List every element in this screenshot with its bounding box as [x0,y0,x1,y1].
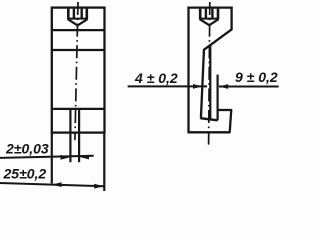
left view threaded hole inner wall right [80,9,82,19]
right view chamfer diagonal [204,29,231,49]
left view slot wall right [78,109,80,162]
left view threaded hole outer wall left [67,9,70,20]
right view threaded hole outer wall right [217,9,220,20]
arrowhead dim2 left pointing right [61,155,70,160]
svg-text:4 ± 0,2: 4 ± 0,2 [134,70,178,86]
right view slot bottom [200,118,217,120]
right view step face / extension line 9 [217,75,219,121]
dimension line 9 plus-minus 0,2 [219,86,279,88]
left view outline [52,8,105,133]
right view top edge [187,6,232,8]
right view slot left wall [201,49,204,119]
right view vertical centerline [209,2,210,146]
right view foot top edge [218,109,232,111]
svg-text:25±0,2: 25±0,2 [3,166,47,182]
left view extension line left edge [51,133,53,184]
left view hole bottom cap [67,18,88,20]
svg-text:2±0,03: 2±0,03 [5,141,49,157]
left view extension line right edge [103,133,105,191]
arrowhead dim2 right pointing left [80,155,89,160]
right view hole drill cone [200,19,219,25]
right view threaded hole inner wall right [211,9,213,19]
svg-text:9 ± 0,2: 9 ± 0,2 [235,69,278,85]
right view bottom edge [189,131,231,133]
left view threaded hole inner wall left [73,9,75,19]
right view foot right face [230,109,232,132]
right view right edge upper [230,7,232,31]
left view hole drill cone [68,19,88,25]
left view vertical centerline [75,2,78,140]
left view horizontal edge y30 [52,29,105,31]
arrowhead dim25 right pointing right [94,184,103,189]
left view horizontal edge y109 [52,108,105,110]
left view threaded hole outer wall right [86,9,89,20]
dimension line 2 plus-minus 0,03 [0,156,94,158]
arrowhead dim9 pointing left [219,84,228,89]
dimension line 4 plus-minus 0,2 [128,85,207,87]
dimension line 25 plus-minus 0,2 [0,183,104,186]
right view hole bottom cap [199,18,219,20]
arrowhead dim4 pointing right [193,84,202,89]
right view slot right wall [209,45,211,119]
right view threaded hole inner wall left [205,9,207,19]
left view horizontal edge y50 [52,49,105,51]
right view threaded hole outer wall left [199,9,202,20]
arrowhead dim25 left pointing left [52,182,61,187]
left view slot wall left [69,109,71,162]
right view left edge [187,7,189,134]
